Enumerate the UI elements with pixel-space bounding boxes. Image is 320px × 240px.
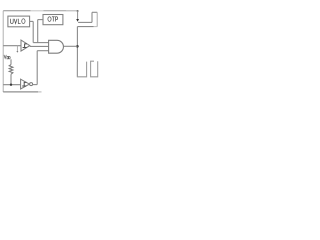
wire UVLO output vertical	[32, 21, 34, 42]
arrow into output stage node	[76, 19, 79, 22]
wire top right segment	[92, 11, 97, 13]
resistor R1	[9, 65, 13, 75]
wire line2 back to bus	[77, 26, 93, 28]
buffer U2 (Schmitt trigger input buffer)	[21, 40, 30, 51]
clamp stub on input net	[16, 46, 18, 52]
wire UVLO output	[30, 20, 34, 22]
wire bottom border (GND rail, fading)	[3, 91, 38, 93]
wire input to schmitt buffer	[3, 45, 21, 47]
wire AND output	[64, 45, 78, 47]
wire line1 right of arrow	[78, 21, 92, 23]
wire from rail down to arrow	[77, 11, 79, 19]
node AND output junction	[76, 45, 79, 48]
wire top border (IC outline / VDD rail)	[3, 10, 77, 12]
AND gate U1 (3-input)	[49, 40, 64, 53]
hysteresis symbol U3	[22, 82, 26, 86]
node IN junction	[10, 84, 12, 86]
wire step up	[91, 12, 93, 22]
output stage device M2 (right box)	[91, 61, 98, 77]
wire AND gate bottom input	[37, 50, 48, 52]
box UVLO	[8, 16, 30, 27]
wire OTP left	[38, 19, 43, 21]
wire inverter output vertical	[36, 51, 38, 85]
inverter bubble	[30, 83, 33, 86]
node VDD rail tap	[77, 10, 79, 12]
arrowhead of clamp stub	[16, 51, 18, 53]
output stage device M1 (left box)	[77, 62, 86, 77]
wire OTP vertical down	[37, 20, 39, 43]
inverter U3 (Schmitt trigger inverter)	[21, 79, 30, 89]
wire output bus vertical	[76, 27, 78, 77]
wire right border segment	[96, 12, 98, 26]
wire IN line	[3, 84, 20, 86]
node VDD label	[4, 55, 10, 59]
wire AND gate top input	[33, 42, 48, 44]
wire resistor bottom lead	[10, 74, 12, 85]
wire VDD lead	[10, 59, 12, 64]
wire left border	[2, 11, 4, 92]
hysteresis symbol U2	[23, 44, 27, 48]
wire inverter output	[33, 84, 38, 86]
box OTP	[43, 15, 63, 25]
wire AND gate middle input	[30, 45, 49, 47]
